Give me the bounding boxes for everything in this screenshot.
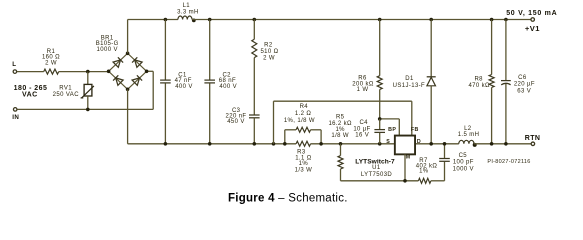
terminal +V1 bbox=[531, 18, 535, 22]
junction bbox=[443, 142, 447, 146]
svg-text:100 pF: 100 pF bbox=[453, 160, 474, 166]
capacitor C3 bbox=[249, 114, 260, 116]
junction bbox=[429, 142, 433, 146]
svg-text:S: S bbox=[386, 139, 390, 145]
terminal IN bbox=[13, 108, 17, 112]
svg-text:PI-8027-072116: PI-8027-072116 bbox=[487, 159, 530, 165]
diode D1 bbox=[430, 20, 432, 77]
junction bbox=[490, 142, 494, 146]
capacitor C4 bbox=[379, 119, 381, 129]
svg-text:R8: R8 bbox=[474, 76, 483, 82]
wire BP bbox=[380, 118, 400, 120]
capacitor C1 bbox=[164, 20, 166, 80]
resistor R4 bbox=[284, 130, 286, 144]
svg-text:1 W: 1 W bbox=[357, 87, 369, 93]
polarity dot L1 bbox=[192, 19, 196, 23]
svg-text:3.3 mH: 3.3 mH bbox=[177, 10, 199, 16]
svg-text:M: M bbox=[406, 155, 411, 161]
svg-text:470 kΩ: 470 kΩ bbox=[468, 83, 490, 89]
junction bbox=[126, 88, 130, 92]
capacitor C2 bbox=[209, 20, 211, 80]
resistor R2 bbox=[253, 20, 255, 40]
svg-text:1000 V: 1000 V bbox=[453, 166, 474, 172]
svg-text:D1: D1 bbox=[405, 76, 414, 82]
junction bbox=[253, 18, 257, 22]
junction bbox=[504, 18, 508, 22]
capacitor C6 bbox=[505, 20, 507, 81]
wire bbox=[17, 108, 153, 110]
junction bbox=[208, 18, 212, 22]
svg-text:R4: R4 bbox=[300, 104, 309, 110]
junction bbox=[319, 142, 323, 146]
svg-text:IN: IN bbox=[12, 114, 19, 121]
wire bbox=[431, 180, 445, 182]
wire bbox=[127, 20, 129, 54]
svg-text:US1J-13-F: US1J-13-F bbox=[393, 83, 425, 89]
junction bbox=[504, 142, 508, 146]
wire bbox=[128, 19, 178, 21]
svg-text:FB: FB bbox=[411, 127, 419, 133]
svg-text:1.2 Ω: 1.2 Ω bbox=[295, 111, 312, 117]
junction bbox=[490, 18, 494, 22]
bridge diode bottom-right bbox=[132, 78, 139, 85]
svg-text:400 V: 400 V bbox=[175, 84, 193, 90]
junction bbox=[164, 18, 168, 22]
junction bbox=[164, 142, 168, 146]
svg-text:BP: BP bbox=[388, 127, 396, 133]
svg-text:1/8 W: 1/8 W bbox=[331, 133, 349, 139]
terminal RTN bbox=[531, 142, 535, 146]
junction bbox=[253, 142, 257, 146]
junction bbox=[339, 142, 343, 146]
IC U1 LYTSwitch-7 bbox=[395, 136, 415, 155]
wire bbox=[341, 180, 419, 182]
svg-text:VAC: VAC bbox=[22, 92, 38, 99]
svg-text:RTN: RTN bbox=[525, 135, 541, 142]
junction bbox=[378, 117, 382, 121]
wire bbox=[152, 71, 154, 109]
resistor R8 bbox=[491, 20, 493, 75]
bridge diode bottom-left bbox=[116, 78, 123, 85]
bridge diode top-right bbox=[135, 60, 142, 67]
svg-text:LYT7503D: LYT7503D bbox=[361, 172, 393, 178]
svg-text:250 VAC: 250 VAC bbox=[53, 92, 80, 98]
svg-text:L1: L1 bbox=[183, 3, 191, 9]
svg-text:510 Ω: 510 Ω bbox=[260, 49, 278, 55]
resistor R5 bbox=[340, 144, 342, 156]
svg-text:1.5 mH: 1.5 mH bbox=[458, 132, 480, 138]
resistor R3 bbox=[296, 141, 311, 146]
svg-text:220 µF: 220 µF bbox=[514, 81, 535, 87]
wire bbox=[17, 71, 44, 73]
svg-text:2 W: 2 W bbox=[263, 55, 275, 61]
svg-text:C5: C5 bbox=[459, 153, 468, 159]
pin M wire bbox=[404, 154, 406, 181]
svg-text:63 V: 63 V bbox=[517, 88, 531, 94]
svg-text:1000 V: 1000 V bbox=[97, 47, 118, 53]
inductor L1 bbox=[178, 16, 192, 20]
varistor RV1 bbox=[87, 72, 89, 85]
resistor R6 bbox=[379, 20, 381, 76]
svg-text:C4: C4 bbox=[359, 120, 368, 126]
wire bbox=[474, 143, 531, 145]
wire bbox=[128, 143, 297, 145]
svg-text:+V1: +V1 bbox=[525, 24, 540, 33]
junction bbox=[145, 70, 149, 74]
junction bbox=[378, 142, 382, 146]
junction bbox=[86, 70, 90, 74]
bridge rectifier BR1 bbox=[109, 53, 128, 71]
polarity dot L2 bbox=[473, 143, 477, 147]
junction bbox=[107, 70, 111, 74]
junction bbox=[378, 18, 382, 22]
junction bbox=[86, 108, 90, 112]
svg-text:1%: 1% bbox=[335, 127, 345, 133]
junction bbox=[283, 142, 287, 146]
resistor R1 bbox=[44, 69, 59, 74]
junction bbox=[126, 52, 130, 56]
svg-text:L: L bbox=[12, 61, 16, 68]
wire bbox=[416, 143, 459, 145]
svg-text:1%: 1% bbox=[419, 169, 429, 175]
junction bbox=[429, 18, 433, 22]
wire FB loop bbox=[273, 101, 275, 144]
wire bbox=[59, 71, 109, 73]
svg-text:2 W: 2 W bbox=[45, 60, 57, 66]
svg-text:50 V, 150 mA: 50 V, 150 mA bbox=[506, 10, 557, 17]
svg-text:1%: 1% bbox=[299, 161, 309, 167]
wire bbox=[127, 89, 129, 144]
junction bbox=[272, 142, 276, 146]
terminal L bbox=[13, 70, 17, 74]
svg-text:RV1: RV1 bbox=[59, 85, 72, 91]
svg-text:R2: R2 bbox=[264, 43, 273, 49]
svg-text:16 V: 16 V bbox=[355, 132, 369, 138]
inductor L2 bbox=[459, 140, 474, 144]
wire bbox=[311, 143, 394, 145]
svg-text:1%, 1/8 W: 1%, 1/8 W bbox=[284, 118, 315, 124]
bridge diode top-left bbox=[113, 60, 120, 67]
svg-text:450 V: 450 V bbox=[227, 119, 245, 125]
resistor R7 bbox=[418, 178, 431, 183]
svg-text:C6: C6 bbox=[518, 75, 527, 81]
svg-text:Figure 4 – Schematic.: Figure 4 – Schematic. bbox=[228, 192, 348, 204]
svg-text:1/3 W: 1/3 W bbox=[295, 167, 313, 173]
capacitor C5 bbox=[444, 162, 446, 181]
svg-text:R5: R5 bbox=[336, 114, 345, 120]
svg-text:U1: U1 bbox=[372, 165, 381, 171]
wire bbox=[192, 19, 531, 21]
junction bbox=[403, 179, 407, 183]
junction bbox=[208, 142, 212, 146]
svg-text:400 V: 400 V bbox=[219, 84, 237, 90]
